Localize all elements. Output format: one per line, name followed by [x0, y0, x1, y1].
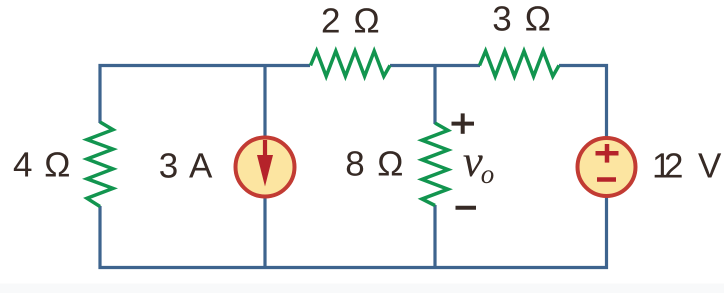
wire: current source branch vertical (node A to bottom) [263, 64, 266, 268]
wire: left branch top (vertical up + top-left horizontal to R2) [100, 66, 310, 124]
voltage source V1 plus sign [596, 144, 619, 163]
wire: top middle segment between R2 and R3 (through node B) [390, 64, 480, 67]
resistor R4 8ohm (middle vertical zigzag) [422, 123, 448, 206]
polarity minus sign for vo [456, 206, 477, 210]
svg-text:A: A [189, 146, 213, 185]
svg-text:4: 4 [13, 146, 32, 185]
polarity plus sign for vo [452, 113, 475, 133]
voltage source V1 minus sign [597, 177, 616, 182]
svg-text:Ω: Ω [354, 1, 380, 40]
svg-text:8: 8 [345, 144, 364, 183]
svg-text:Ω: Ω [377, 144, 403, 183]
voltage source V1 circle body [578, 138, 636, 196]
wire: 8-ohm branch vertical top stub [433, 64, 436, 124]
resistor R3 3ohm (top horizontal zigzag) [480, 51, 560, 76]
current source I1 arrow (downward) [257, 140, 273, 187]
wire: top right segment from R3 to right branch, down to source V1 [559, 66, 607, 141]
resistor R1 4ohm (left vertical zigzag) [87, 122, 113, 207]
resistor R2 2ohm (top horizontal zigzag) [311, 51, 391, 76]
svg-text:2: 2 [321, 1, 340, 40]
wire: bottom rail (left vertical, bottom horizontal, right vertical up to V1) [100, 195, 607, 268]
svg-text:Ω: Ω [44, 146, 70, 185]
svg-text:3: 3 [159, 146, 178, 185]
svg-text:3: 3 [492, 0, 511, 39]
svg-text:Ω: Ω [525, 0, 551, 39]
svg-text:V: V [698, 146, 722, 185]
svg-text:2: 2 [664, 146, 683, 185]
current source I1 circle body [236, 138, 295, 197]
wire: 8-ohm branch vertical bottom stub [433, 205, 436, 268]
bottom gray strip [0, 284, 724, 293]
